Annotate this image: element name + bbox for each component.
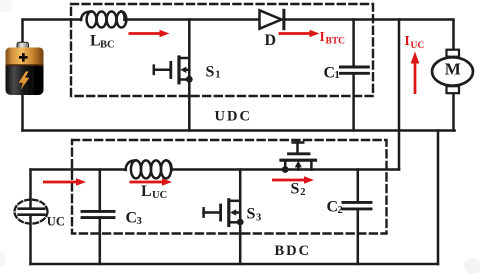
wire top bus L_BC to diode anode (125, 18, 260, 21)
svg-text:M: M (445, 60, 461, 79)
svg-text:2: 2 (338, 205, 343, 216)
svg-text:3: 3 (137, 216, 142, 227)
transistor S1 (154, 20, 193, 131)
battery BAT (6, 42, 44, 95)
capacitor C2 (343, 170, 371, 265)
current arrow in L_BC branch (129, 30, 170, 37)
inductor L_UC (126, 160, 172, 178)
motor M (432, 50, 473, 93)
junction node at S3 source (237, 219, 244, 226)
transistor S2 (281, 143, 316, 173)
wire motor bottom to rail (452, 93, 455, 131)
wire battery positive to top bus (23, 20, 82, 45)
svg-text:BC: BC (100, 40, 115, 51)
wire UC top (29, 170, 32, 209)
BDC converter dashed box (72, 140, 387, 234)
current arrow at UC output (43, 178, 86, 185)
svg-text:BTC: BTC (326, 37, 346, 47)
svg-text:UC: UC (47, 215, 65, 229)
current arrow I_UC vertical (411, 52, 420, 95)
wire middle negative rail (23, 129, 455, 132)
svg-text:3: 3 (256, 213, 261, 224)
wire BDC top rail right of L_UC (172, 168, 399, 171)
UDC converter dashed box (71, 4, 373, 96)
wire BDC bottom rail (31, 263, 439, 266)
transistor S3 (204, 170, 244, 265)
wire UC bottom (29, 215, 32, 264)
current arrow at S2 (272, 176, 314, 183)
svg-text:C: C (327, 199, 339, 216)
inductor L_BC (81, 12, 126, 28)
svg-text:I: I (405, 33, 410, 48)
junction node at S1 source (186, 76, 193, 83)
svg-text:UDC: UDC (215, 109, 252, 125)
svg-text:BDC: BDC (275, 243, 312, 259)
wire right riser rail-to-rail (437, 131, 440, 265)
svg-text:S: S (291, 181, 300, 198)
wire BDC output riser to top bus (398, 20, 401, 170)
svg-text:UC: UC (152, 190, 167, 201)
wire BDC top rail (31, 168, 126, 171)
current arrow I_BTC (279, 30, 320, 37)
svg-text:C: C (126, 210, 138, 227)
svg-text:S: S (247, 205, 256, 222)
corner smudge artifact (464, 258, 480, 274)
svg-text:C: C (324, 64, 336, 81)
svg-text:1: 1 (335, 70, 340, 81)
wire battery negative down (21, 95, 24, 131)
svg-text:UC: UC (411, 41, 425, 51)
ultracapacitor UC (15, 200, 48, 224)
current arrow under L_UC (130, 178, 173, 185)
capacitor C3 (82, 170, 114, 265)
wire top bus diode cathode to motor corner (285, 20, 454, 51)
junction node at S2 source (282, 166, 289, 173)
capacitor C1 (340, 20, 368, 131)
svg-text:L: L (141, 183, 152, 200)
svg-text:I: I (320, 29, 325, 44)
svg-text:2: 2 (300, 187, 305, 198)
svg-text:D: D (265, 32, 277, 49)
svg-text:S: S (206, 64, 215, 81)
diode D (260, 10, 284, 28)
svg-text:1: 1 (215, 70, 220, 81)
